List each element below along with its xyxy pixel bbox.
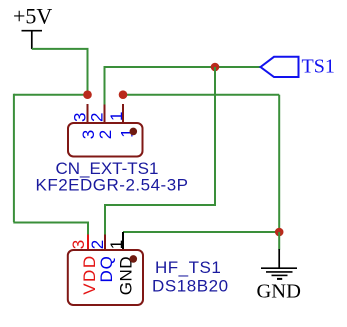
svg-text:2: 2 <box>88 113 107 122</box>
connector body <box>68 123 143 157</box>
wire +5V bottom horizontal to VDD <box>13 222 88 224</box>
wire +5V rail left segment <box>14 94 88 96</box>
wire DQ horizontal <box>105 204 216 206</box>
wire TS1 rail <box>105 66 261 68</box>
net flag TS1 <box>261 56 335 78</box>
svg-text:HF_TS1: HF_TS1 <box>155 258 221 277</box>
wire GND stub above ground symbol <box>278 232 280 250</box>
ground symbol GND <box>257 249 301 303</box>
wire connector pin2 riser <box>104 66 106 105</box>
svg-text:+5V: +5V <box>13 4 52 29</box>
sensor body <box>68 250 143 305</box>
junction dot at pin1 <box>119 90 128 99</box>
svg-text:TS1: TS1 <box>302 56 335 78</box>
junction dot at +5V / pin3 <box>83 90 92 99</box>
pin 1 stub <box>122 104 124 124</box>
svg-text:3: 3 <box>69 240 88 249</box>
pin 3 stub VDD <box>87 235 89 252</box>
wire GND right drop <box>278 95 280 232</box>
pin1 marker dot <box>130 255 138 263</box>
junction dot at GND <box>275 228 284 237</box>
wire +5V from power symbol to pin3 column <box>32 49 88 95</box>
svg-text:DQ: DQ <box>97 255 116 282</box>
connector CN_EXT-TS1 <box>68 104 143 157</box>
wire VDD riser <box>87 222 89 236</box>
pin 2 stub <box>104 105 106 125</box>
svg-text:2: 2 <box>88 240 107 249</box>
wire +5V left drop <box>13 94 15 222</box>
wire TS1 drop <box>214 67 216 206</box>
svg-text:DS18B20: DS18B20 <box>152 276 229 295</box>
svg-text:2: 2 <box>96 130 115 139</box>
wire GND rail top from pin1 to right drop <box>123 94 279 96</box>
svg-text:1: 1 <box>107 112 126 121</box>
wire GND bottom rail <box>123 231 279 233</box>
svg-text:1: 1 <box>107 240 126 249</box>
pin 2 stub DQ <box>104 235 106 252</box>
pin1 marker dot <box>130 128 138 136</box>
pin 1 stub GND <box>122 232 124 251</box>
wire DQ riser <box>104 204 106 235</box>
svg-text:GND: GND <box>257 281 301 303</box>
pin 3 stub <box>87 104 89 124</box>
junction dot on TS1 rail <box>211 63 220 72</box>
power symbol +5V <box>13 4 52 50</box>
svg-text:KF2EDGR-2.54-3P: KF2EDGR-2.54-3P <box>36 176 189 195</box>
sensor U HF_TS1 DS18B20 <box>68 232 143 305</box>
